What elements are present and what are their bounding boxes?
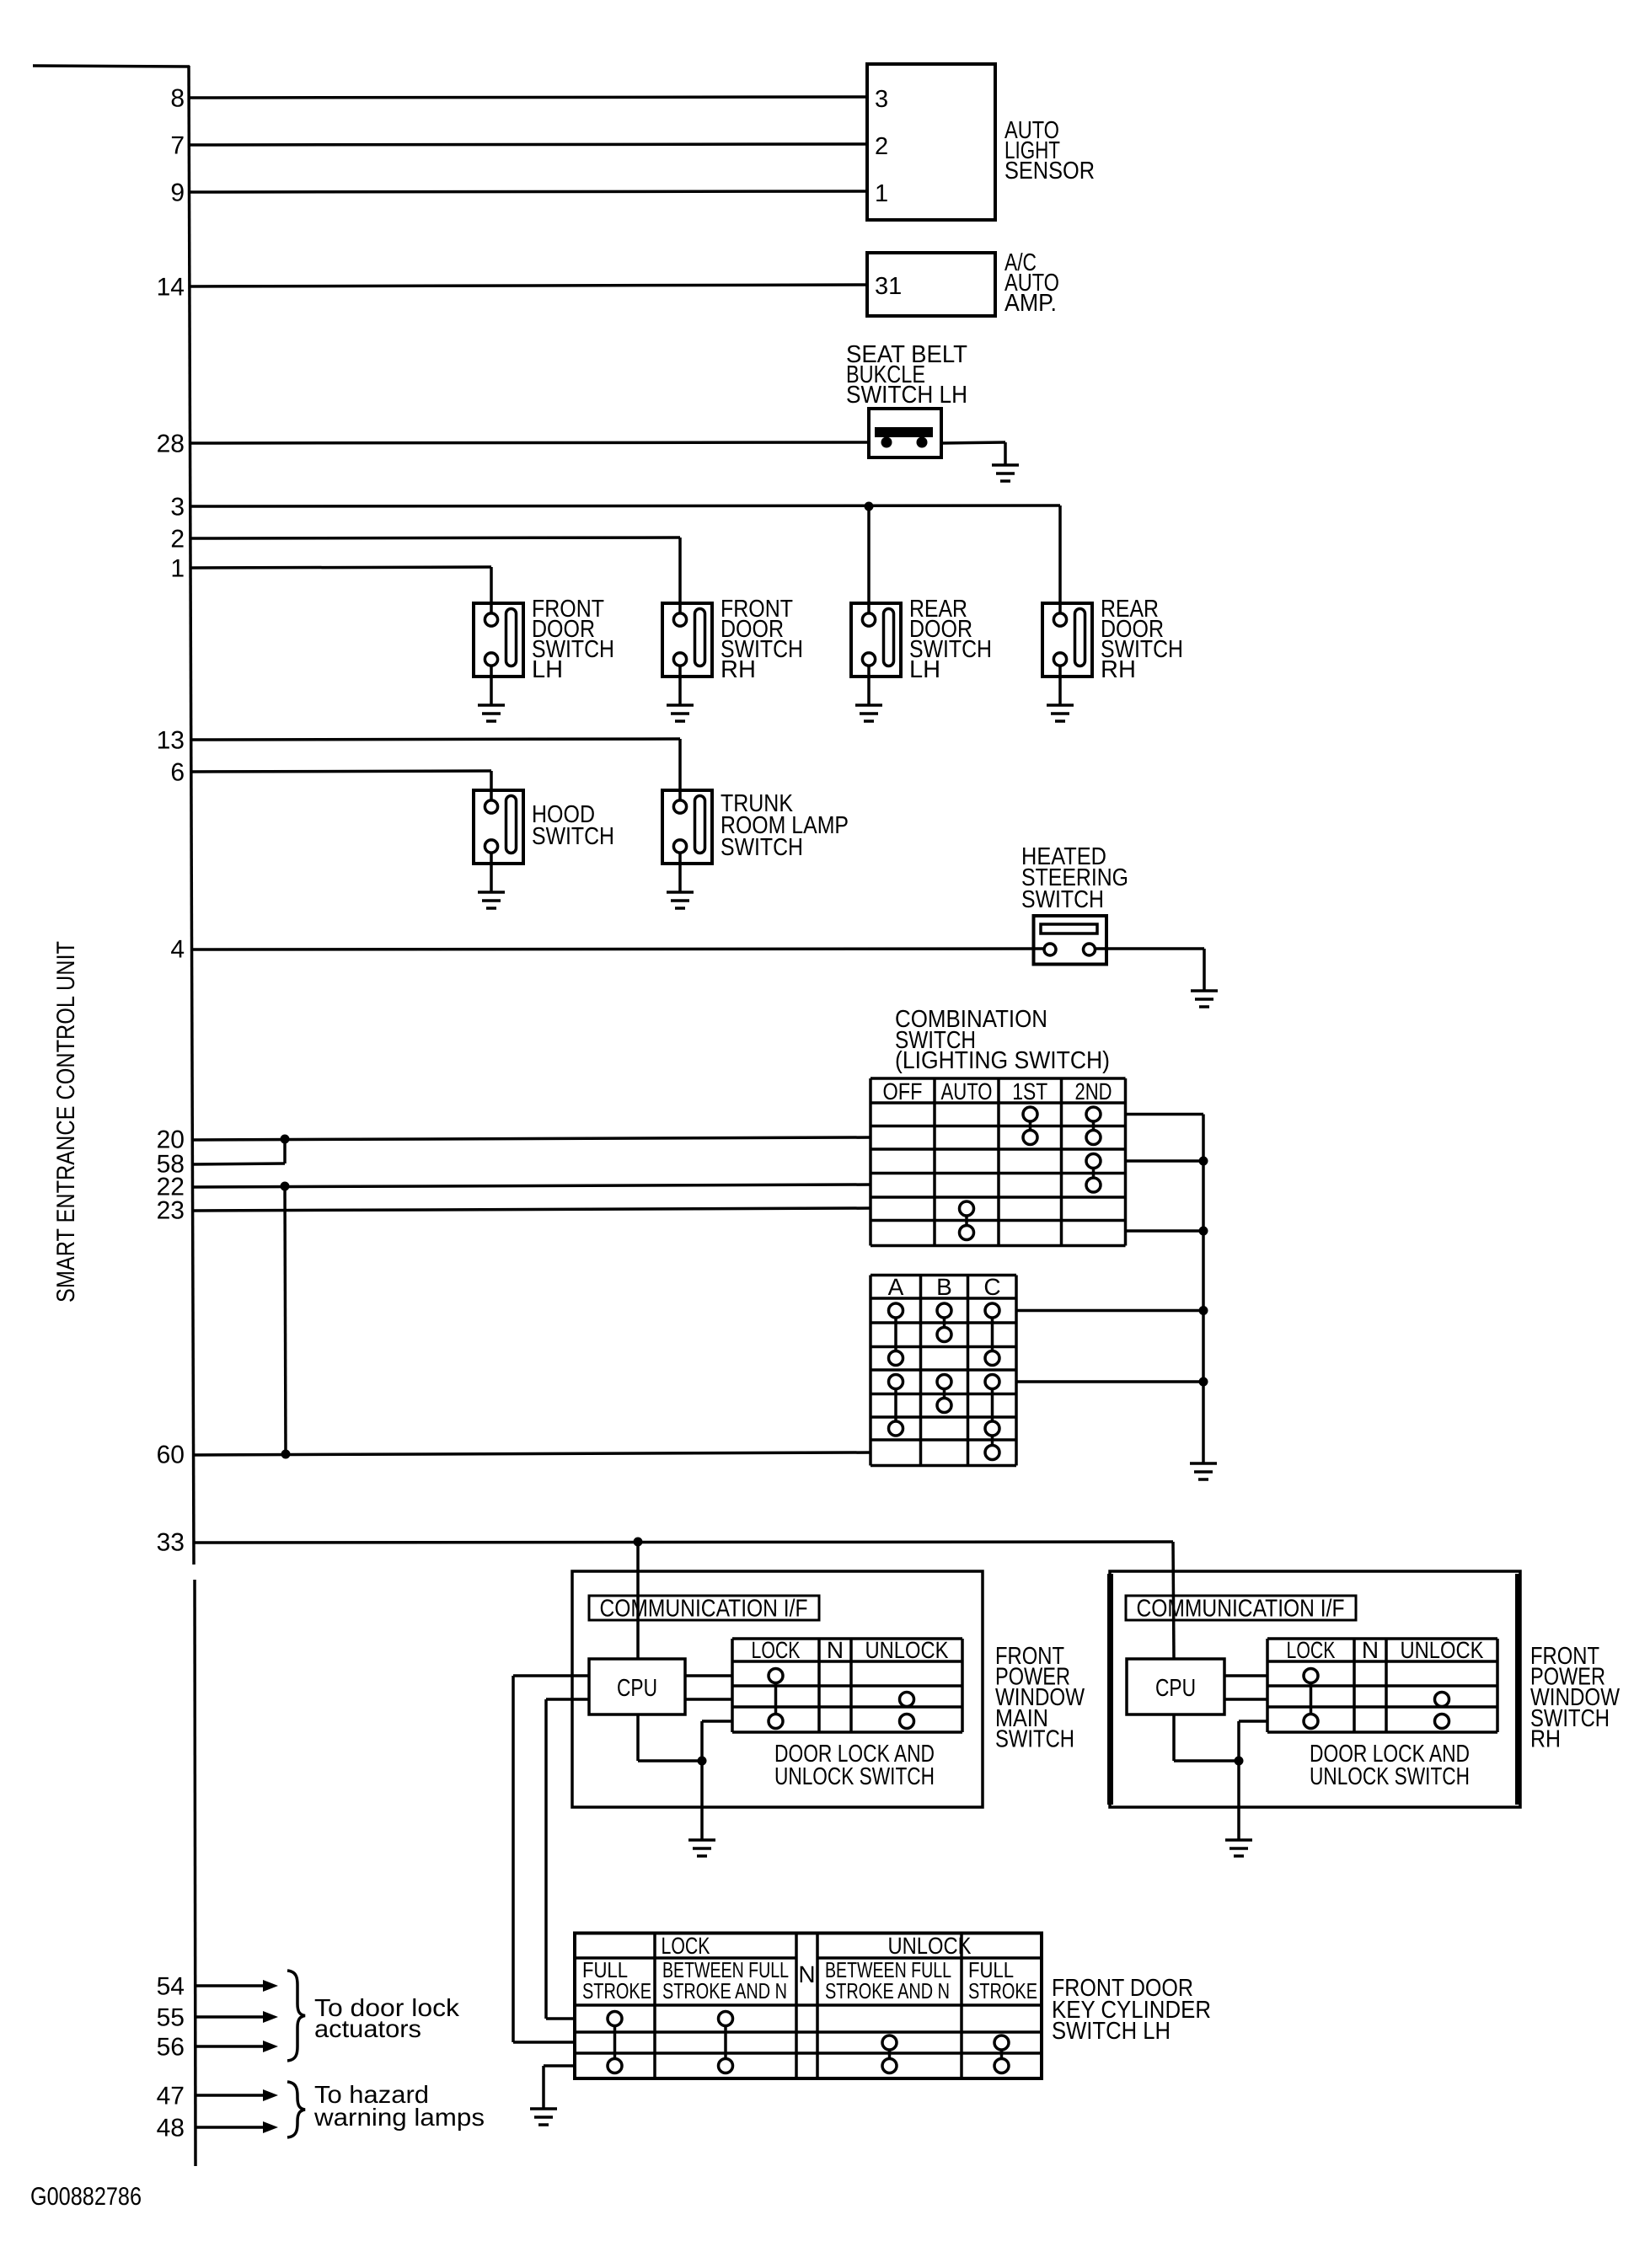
- wire pin 33 branch down to main switch CPU: [636, 1542, 640, 1659]
- svg-text:23: 23: [157, 1197, 185, 1225]
- svg-text:48: 48: [157, 2115, 185, 2142]
- svg-text:SENSOR: SENSOR: [1004, 158, 1095, 185]
- a/c auto amp box: [867, 253, 995, 316]
- svg-text:LOCK: LOCK: [1287, 1637, 1336, 1663]
- svg-text:2: 2: [875, 133, 888, 160]
- wire pin 1 to front door switch LH: [190, 567, 491, 568]
- front power window switch RH lock/n/unlock table grid: [1267, 1639, 1497, 1732]
- front power window switch RH wire CPU to ground node: [1172, 1714, 1176, 1761]
- wire A/B/C row 4 to ground bus: [1016, 1380, 1203, 1383]
- wire heated steering switch to ground: [1096, 947, 1205, 950]
- front power window main switch wire switch common to ground node: [700, 1721, 704, 1761]
- svg-text:G00882786: G00882786: [30, 2183, 142, 2211]
- junction node on pin 33 wire: [634, 1538, 643, 1547]
- svg-text:actuators: actuators: [314, 2016, 421, 2043]
- ground heated steering switch: [1191, 991, 1218, 1007]
- switch trunk room lamp switch: [662, 790, 712, 892]
- switch rear door switch RH: [1042, 603, 1092, 705]
- front power window switch RH communication i/f box: [1126, 1596, 1356, 1620]
- A/B/C link B rows 1-2: [943, 1311, 946, 1335]
- lighting switch contact link 1ST: [1029, 1115, 1032, 1138]
- front power window switch RH CPU box: [1127, 1659, 1224, 1714]
- svg-text:SWITCH LH: SWITCH LH: [846, 382, 967, 409]
- front power window switch RH lock contact link: [1310, 1676, 1313, 1721]
- A/B/C link C rows 1-3: [991, 1311, 994, 1359]
- lighting switch contacts 1ST rows 2-3: [1023, 1107, 1037, 1121]
- svg-text:SMART ENTRANCE CONTROL UNIT: SMART ENTRANCE CONTROL UNIT: [52, 941, 80, 1302]
- front power window main switch communication i/f box: [589, 1596, 819, 1620]
- front power window main switch unlock contacts: [900, 1693, 914, 1707]
- wire pin 13 to trunk room lamp switch: [190, 739, 680, 740]
- front power window main switch wire CPU to lock row: [685, 1674, 732, 1677]
- svg-text:1: 1: [170, 555, 185, 583]
- lighting switch contact link 2ND lower: [1092, 1161, 1096, 1185]
- svg-text:STROKE: STROKE: [582, 1978, 651, 2003]
- ground of rear door switch RH: [1047, 705, 1074, 721]
- seat belt buckle switch contact dots: [881, 437, 892, 448]
- svg-text:LH: LH: [532, 656, 563, 683]
- wire seat belt switch to ground: [941, 442, 1005, 443]
- front power window switch RH thick side bars: [1107, 1574, 1113, 1805]
- svg-text:B: B: [936, 1274, 952, 1300]
- junction node lighting row 7: [1199, 1227, 1208, 1236]
- wire pin 58 joining pin 20 wire: [192, 1163, 285, 1164]
- lighting switch contacts AUTO rows 6-7: [960, 1201, 974, 1216]
- svg-text:STROKE AND N: STROKE AND N: [662, 1978, 787, 2003]
- lighting switch contacts 2ND rows 4-5: [1086, 1154, 1101, 1169]
- key cylinder contacts row 2: [882, 2035, 897, 2050]
- svg-text:RH: RH: [1101, 656, 1136, 683]
- front power window switch RH wire CPU to lock row: [1224, 1674, 1267, 1677]
- wire pin 14 to a/c auto amp pin 31: [189, 285, 867, 286]
- front power window main switch CPU box: [589, 1659, 685, 1714]
- junction node on pin 3 wire: [865, 502, 874, 511]
- svg-text:SWITCH: SWITCH: [721, 834, 803, 861]
- front power window main switch wire node to ground: [700, 1761, 704, 1840]
- ground of trunk room lamp switch: [667, 892, 694, 908]
- svg-text:N: N: [798, 1961, 815, 1987]
- ground front power window switch RH: [1225, 1840, 1252, 1856]
- svg-text:54: 54: [157, 1973, 185, 2001]
- svg-text:47: 47: [157, 2083, 185, 2110]
- key cylinder link full stroke unlock: [1000, 2043, 1004, 2067]
- front power window switch RH junction node: [1235, 1757, 1244, 1766]
- wire pin 6 to hood switch: [190, 771, 491, 772]
- svg-text:4: 4: [170, 936, 185, 964]
- junction node A/B/C row 1: [1199, 1306, 1208, 1315]
- A/B/C contacts row 6: [889, 1421, 903, 1436]
- ground of rear door switch LH: [855, 705, 882, 721]
- lighting switch contact link 2ND upper: [1092, 1115, 1096, 1138]
- ground front power window main switch: [688, 1840, 715, 1856]
- wire main switch CPU upper to key cylinder row 2: [513, 1674, 589, 1677]
- svg-text:7: 7: [170, 132, 185, 160]
- svg-text:UNLOCK SWITCH: UNLOCK SWITCH: [774, 1763, 935, 1790]
- heated steering switch box: [1034, 916, 1107, 965]
- junction node lighting row 4: [1199, 1157, 1208, 1166]
- switch front door switch RH: [662, 603, 712, 705]
- A/B/C contacts row 4: [889, 1375, 903, 1389]
- combination switch ground bus: [1202, 1115, 1205, 1464]
- svg-text:SWITCH: SWITCH: [995, 1725, 1074, 1752]
- wire pin 60 to wiper switch bottom row: [193, 1452, 871, 1455]
- brace hazard warning pins: [287, 2082, 305, 2137]
- wire pin 33 down to RH switch CPU: [1173, 1542, 1174, 1658]
- svg-text:STROKE AND N: STROKE AND N: [825, 1978, 950, 2003]
- wire pin 8 to auto light sensor pin 3: [189, 97, 867, 98]
- ground seat belt buckle switch: [992, 465, 1019, 481]
- svg-text:33: 33: [157, 1529, 185, 1557]
- svg-text:C: C: [983, 1274, 1000, 1300]
- svg-text:56: 56: [157, 2034, 185, 2062]
- key cylinder switch table grid: [575, 1934, 1042, 2079]
- svg-text:8: 8: [170, 85, 185, 113]
- svg-text:9: 9: [170, 179, 185, 207]
- lighting switch contacts 2ND rows 2-3: [1086, 1107, 1101, 1121]
- wire pin 23 to lighting switch row 6: [192, 1208, 871, 1211]
- svg-text:UNLOCK: UNLOCK: [1401, 1637, 1484, 1663]
- lighting switch contact link AUTO: [965, 1209, 968, 1233]
- svg-text:13: 13: [157, 727, 185, 755]
- switch front door switch LH: [474, 603, 523, 705]
- ground of front door switch LH: [478, 705, 505, 721]
- wire link from pin 22 node down to pin 60 node: [285, 1186, 286, 1454]
- front power window main switch lock contacts: [769, 1669, 783, 1683]
- svg-text:(LIGHTING SWITCH): (LIGHTING SWITCH): [895, 1047, 1110, 1074]
- A/B/C contacts row 3: [889, 1351, 903, 1366]
- svg-text:COMMUNICATION I/F: COMMUNICATION I/F: [1137, 1596, 1345, 1623]
- wire pin 47 arrow lead: [195, 2094, 264, 2097]
- A/B/C contact C row 7: [985, 1446, 999, 1460]
- key cylinder link between unlock: [888, 2043, 892, 2067]
- wire A/B/C row 1 to ground bus: [1016, 1309, 1203, 1313]
- svg-text:CPU: CPU: [617, 1675, 657, 1702]
- svg-text:SWITCH: SWITCH: [532, 823, 614, 850]
- svg-text:COMMUNICATION I/F: COMMUNICATION I/F: [600, 1596, 808, 1623]
- front power window switch RH wire CPU to unlock row: [1224, 1698, 1267, 1701]
- A/B/C contact B row 2: [937, 1328, 951, 1342]
- wire pin 56 arrow lead: [195, 2045, 264, 2048]
- wire pin 2 to front door switch RH: [190, 538, 680, 538]
- wire pin 54 arrow lead: [195, 1984, 264, 1987]
- key cylinder contacts row 1: [608, 2012, 622, 2026]
- svg-text:LOCK: LOCK: [662, 1933, 710, 1959]
- control unit bus bar lower segment: [195, 1580, 196, 2166]
- key cylinder link between lock: [724, 2019, 727, 2066]
- wire pin 28 to seat belt buckle switch: [190, 442, 869, 443]
- key cylinder contacts row 3: [608, 2059, 622, 2073]
- A/B/C contact B row 5: [937, 1399, 951, 1413]
- svg-text:1: 1: [875, 180, 888, 207]
- A/B/C link B rows 4-5: [943, 1382, 946, 1405]
- lighting switch table grid: [871, 1078, 1126, 1246]
- seat belt buckle switch contact bar: [875, 427, 933, 437]
- junction node A/B/C row 4: [1199, 1377, 1208, 1387]
- svg-text:SWITCH: SWITCH: [1021, 886, 1104, 913]
- wire lighting switch row 7 to ground bus: [1126, 1229, 1204, 1233]
- wire pin 55 arrow lead: [195, 2015, 264, 2019]
- seat belt buckle switch box: [869, 409, 941, 457]
- svg-text:2: 2: [170, 526, 185, 554]
- wire lighting switch row 4 to ground bus: [1126, 1159, 1204, 1163]
- wire pin 20 to lighting switch row 3: [192, 1137, 871, 1140]
- wire pin 9 to auto light sensor pin 1: [189, 191, 867, 192]
- ground of hood switch: [478, 892, 505, 908]
- svg-text:N: N: [827, 1637, 844, 1663]
- wire pin 3 to rear door switches: [190, 505, 1060, 506]
- junction node pin 20/58: [281, 1135, 290, 1144]
- front power window main switch outer box: [572, 1571, 983, 1807]
- wire pin 33 communication line: [194, 1542, 1173, 1543]
- svg-text:UNLOCK: UNLOCK: [865, 1637, 949, 1663]
- junction node on pin 60 wire: [281, 1450, 291, 1459]
- wire pin 48 arrow lead: [195, 2126, 264, 2129]
- svg-text:CPU: CPU: [1155, 1675, 1196, 1702]
- switch table A/B/C grid: [871, 1276, 1016, 1466]
- svg-text:SWITCH LH: SWITCH LH: [1052, 2018, 1171, 2045]
- svg-text:N: N: [1362, 1637, 1379, 1663]
- svg-text:A: A: [888, 1274, 904, 1300]
- A/B/C link C rows 4-7: [991, 1382, 994, 1429]
- wire control unit top stub: [33, 66, 190, 67]
- svg-text:60: 60: [157, 1442, 185, 1469]
- auto light sensor box: [867, 64, 995, 220]
- svg-text:UNLOCK SWITCH: UNLOCK SWITCH: [1310, 1763, 1470, 1790]
- svg-text:3: 3: [170, 494, 185, 522]
- wire pin 22 to lighting switch row 5: [192, 1185, 871, 1187]
- control unit bus bar upper segment: [189, 66, 194, 1565]
- A/B/C link A rows 1-3: [894, 1311, 897, 1359]
- svg-text:2ND: 2ND: [1075, 1078, 1112, 1105]
- switch rear door switch LH: [851, 603, 901, 705]
- svg-text:UNLOCK: UNLOCK: [888, 1933, 972, 1959]
- wire main switch CPU lower to key cylinder row 1: [546, 1698, 589, 1701]
- svg-text:14: 14: [157, 274, 185, 302]
- svg-text:RH: RH: [721, 656, 756, 683]
- front power window main switch lock contact link: [774, 1676, 778, 1721]
- front power window main switch lock/n/unlock table grid: [732, 1639, 962, 1732]
- front power window switch RH lock contacts: [1304, 1669, 1318, 1683]
- svg-text:3: 3: [875, 86, 888, 113]
- svg-text:STROKE: STROKE: [968, 1978, 1037, 2003]
- heated steering switch contact circles: [1044, 944, 1056, 955]
- svg-text:31: 31: [875, 273, 902, 300]
- key cylinder switch table outline: [575, 1934, 1042, 2079]
- ground of front door switch RH: [667, 705, 694, 721]
- brace door lock actuator pins: [287, 1971, 305, 2061]
- svg-text:OFF: OFF: [883, 1078, 923, 1105]
- svg-text:RH: RH: [1530, 1725, 1561, 1752]
- front power window switch RH wire switch common to ground node: [1237, 1721, 1240, 1761]
- junction node pin 22/60: [281, 1182, 290, 1191]
- front power window switch RH wire node to ground: [1237, 1761, 1240, 1840]
- front power window switch RH unlock contacts: [1435, 1693, 1449, 1707]
- switch hood switch: [474, 790, 523, 892]
- wire pin 4 to heated steering switch: [191, 949, 1044, 949]
- front power window switch RH outer box: [1110, 1571, 1520, 1807]
- ground combination switch: [1190, 1463, 1217, 1479]
- svg-text:warning lamps: warning lamps: [313, 2105, 485, 2132]
- svg-text:1ST: 1ST: [1012, 1078, 1047, 1105]
- front power window main switch junction node: [698, 1757, 707, 1766]
- front power window main switch wire CPU to unlock row: [685, 1698, 732, 1701]
- svg-text:28: 28: [157, 431, 185, 458]
- ground key cylinder switch: [530, 2109, 557, 2125]
- svg-text:AMP.: AMP.: [1004, 290, 1057, 317]
- svg-text:AUTO: AUTO: [941, 1078, 993, 1105]
- wire pin 7 to auto light sensor pin 2: [189, 144, 867, 145]
- wire key cylinder common row 3 to ground: [544, 2064, 575, 2067]
- front power window main switch wire CPU to ground node: [636, 1714, 640, 1761]
- wire lighting switch row 2 to ground bus: [1126, 1113, 1204, 1116]
- svg-text:6: 6: [170, 759, 185, 787]
- A/B/C contacts row 1: [889, 1303, 903, 1318]
- svg-text:LH: LH: [909, 656, 940, 683]
- svg-text:55: 55: [157, 2004, 185, 2032]
- A/B/C link A rows 4-6: [894, 1382, 897, 1429]
- key cylinder link full stroke lock: [613, 2019, 617, 2066]
- heated steering switch slot: [1041, 924, 1097, 933]
- svg-text:LOCK: LOCK: [752, 1637, 801, 1663]
